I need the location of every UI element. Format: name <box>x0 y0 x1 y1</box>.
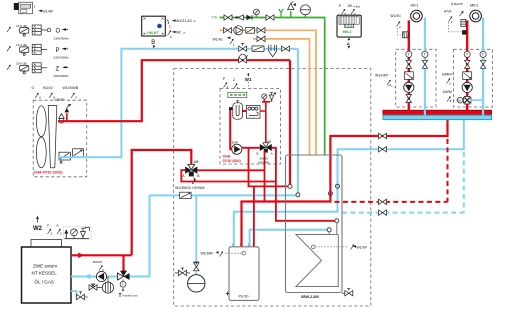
wire cyan main down to tank port <box>297 49 299 195</box>
wire 3way to riser cyan <box>129 195 150 276</box>
svg-text:O: O <box>56 29 61 35</box>
wire mixer bypass cyan <box>471 99 483 101</box>
MK1 pump A/MKP <box>462 82 472 92</box>
outlet funnel on cyan main <box>269 45 277 57</box>
svg-text:T: T <box>122 283 124 287</box>
svg-text:2: 2 <box>34 4 36 8</box>
fuse row O 16A <box>7 24 69 41</box>
svg-text:MM-2: MM-2 <box>343 30 352 34</box>
MK1 valve supply <box>465 60 470 68</box>
svg-text:W1/SAF: W1/SAF <box>201 252 214 256</box>
filter on cyan return <box>180 192 192 198</box>
heat pump outdoor unit CHA-07/10 ODU dashed box <box>33 100 86 177</box>
boiler ZWE extern NT KESSEL <box>22 247 72 303</box>
node cyan port SEW mid <box>336 184 340 188</box>
wire tank branch red <box>253 186 255 246</box>
svg-text:3: 3 <box>75 96 77 100</box>
big boundary dashed box <box>174 69 371 307</box>
fuse row Z 20A <box>7 62 69 79</box>
flow sensor A/VF <box>444 10 467 35</box>
IDU internal red pipes <box>230 109 233 140</box>
svg-text:3: 3 <box>237 86 239 90</box>
svg-text:W1: W1 <box>348 4 353 8</box>
svg-text:W1/Z1,A3: W1/Z1,A3 <box>176 19 192 23</box>
SEW drain valve <box>342 289 353 296</box>
svg-text:Z: Z <box>56 66 60 72</box>
wire valve bottom port red <box>264 151 266 202</box>
svg-text:P: P <box>47 224 49 228</box>
svg-text:3: 3 <box>169 24 171 28</box>
wire 3way B port red <box>197 169 264 171</box>
MM-2 module <box>337 4 361 49</box>
svg-text:3: 3 <box>39 96 41 100</box>
heating circuit HK1 <box>411 2 423 21</box>
sensor W1/SAF <box>201 251 246 256</box>
svg-text:HK1: HK1 <box>411 2 420 7</box>
svg-text:A/VF: A/VF <box>444 10 452 14</box>
wire HK1 return cyan <box>424 18 426 116</box>
dirt separator <box>89 277 114 294</box>
svg-text:A/MKP: A/MKP <box>442 73 454 77</box>
svg-text:ZWE extern: ZWE extern <box>33 264 58 269</box>
max thermostat A-MaxTh <box>451 2 466 27</box>
MK1 dashed box <box>454 49 493 107</box>
wire coil return cyan <box>250 230 329 247</box>
svg-text:W1/A1: W1/A1 <box>213 37 224 41</box>
HM-NT module <box>142 16 197 48</box>
IDU expansion vessel <box>233 101 243 120</box>
svg-text:B: B <box>57 224 59 228</box>
fuse row P 16A <box>7 43 69 60</box>
svg-text:HM-NT: HM-NT <box>147 31 159 35</box>
svg-text:MaxTh: MaxTh <box>454 2 464 6</box>
svg-text:400V/50Hz: 400V/50Hz <box>54 74 70 78</box>
svg-text:NT KESSEL: NT KESSEL <box>32 271 58 276</box>
svg-text:B/KKP: B/KKP <box>93 260 102 264</box>
outdoor sensor W1/AF device <box>14 2 53 14</box>
svg-text:3: 3 <box>462 11 464 15</box>
svg-text:W1/E1: W1/E1 <box>390 14 401 18</box>
sensor W1/SF <box>311 244 367 249</box>
wire boiler supply riser red <box>132 150 192 255</box>
wire branch to 3way valve red <box>122 255 124 272</box>
svg-text:07/10 (IDU): 07/10 (IDU) <box>223 159 241 163</box>
svg-text:W1X0/MB: W1X0/MB <box>63 86 79 90</box>
wire red main down to tank port <box>289 60 291 186</box>
manifold bar red <box>383 110 492 115</box>
svg-text:O: O <box>32 86 35 90</box>
svg-text:MK1: MK1 <box>470 2 479 7</box>
wire manifold return cyan <box>234 119 464 247</box>
svg-text:SEW-2-300: SEW-2-300 <box>301 295 319 299</box>
svg-text:CHA-: CHA- <box>223 154 233 158</box>
valve on red main <box>239 54 248 63</box>
svg-text:P: P <box>56 48 60 54</box>
svg-text:2.5BAR: 2.5BAR <box>54 98 65 102</box>
svg-text:230V/50Hz: 230V/50Hz <box>54 36 70 40</box>
MK1 thermometer return <box>480 51 486 57</box>
buffer tank PU-50 <box>226 242 259 300</box>
svg-text:3: 3 <box>60 232 62 236</box>
boiler connection labels W2 P B <box>33 216 62 236</box>
svg-text:B: B <box>256 152 258 156</box>
svg-text:AB: AB <box>267 139 271 143</box>
wire ODU supply red <box>58 60 290 121</box>
svg-text:2: 2 <box>170 35 172 39</box>
wire manifold supply to PU50 red <box>242 119 448 247</box>
svg-text:16 A (B): 16 A (B) <box>16 24 27 28</box>
svg-text:W1/AF: W1/AF <box>42 10 53 14</box>
svg-text:PU-50: PU-50 <box>239 295 249 299</box>
HK1 valve supply <box>406 60 411 68</box>
wire ODU return cyan <box>58 49 298 158</box>
SEW internal coil <box>296 223 338 287</box>
svg-text:16 A (B): 16 A (B) <box>16 43 27 47</box>
IDU gauge and safety <box>262 92 276 100</box>
svg-text:el.: el. <box>183 32 186 35</box>
ODU terminal labels O W1X0 W1X0/MB <box>32 86 79 100</box>
circulation return line orange <box>253 36 310 155</box>
valve on supply red <box>379 133 387 138</box>
svg-text:el.: el. <box>193 20 196 23</box>
3way valve W1/3WUV HZ/WW black <box>175 160 205 190</box>
node cyan port coil <box>327 228 331 232</box>
svg-text:3: 3 <box>51 232 53 236</box>
boiler top connector <box>31 240 62 248</box>
IDU pump ZHP <box>232 141 242 155</box>
sensor T kessel min <box>119 281 139 299</box>
node red port SEW mid <box>328 192 332 196</box>
boiler pump B/KKP <box>93 260 107 282</box>
valve on return cyan <box>379 147 387 152</box>
svg-text:3: 3 <box>449 82 451 86</box>
svg-text:W1: W1 <box>245 77 252 82</box>
wire expansion vessel cyan <box>195 195 197 274</box>
svg-text:HZ/WW: HZ/WW <box>258 160 269 164</box>
mixed circuit MK1 <box>470 2 482 21</box>
boiler instrument group thermometer gauge safety <box>64 226 92 239</box>
svg-text:W1X0: W1X0 <box>43 86 53 90</box>
svg-text:W2: W2 <box>33 226 43 232</box>
ODU blade column <box>48 106 57 168</box>
svg-text:2: 2 <box>399 25 401 29</box>
3way mixing valve boiler black <box>118 271 130 282</box>
IDU heat exchanger coil box <box>246 105 260 118</box>
IDU electrical connections P Z W1 <box>223 73 252 90</box>
vessel fill valve <box>175 268 191 276</box>
wire MK1 supply red <box>466 20 468 110</box>
MK1 mixer A/MM <box>443 90 471 104</box>
heat pump indoor unit CHA-07/10 IDU dashed box <box>220 89 281 165</box>
svg-text:B: B <box>151 40 155 46</box>
expansion vessel <box>188 262 205 292</box>
ODU safety valve and gauge <box>59 104 72 123</box>
warm water line orange with circulation pump <box>213 26 317 155</box>
MK1 filter <box>463 72 472 80</box>
wire HK1 supply red <box>408 20 410 110</box>
svg-text:W1/SF: W1/SF <box>356 245 367 249</box>
svg-text:M: M <box>458 99 461 103</box>
IDU 3way valve 3WUV HZ/WW black <box>256 139 273 155</box>
node red port coil <box>335 219 339 223</box>
filter on cyan main <box>252 46 264 52</box>
wire 3way A port loop red <box>181 170 276 181</box>
immersion heater W1/E1 <box>390 14 408 38</box>
wire valve A port red <box>272 148 337 221</box>
HK1 valve lower <box>406 95 411 103</box>
HK1 filter <box>404 72 413 80</box>
HK1 return valve <box>422 60 427 68</box>
HK1 thermometer return <box>422 51 428 57</box>
svg-text:3: 3 <box>344 12 346 16</box>
node red port SEW <box>288 184 292 188</box>
dashed alt return cyan <box>342 212 464 214</box>
HK1 pump W1/HKP <box>404 82 414 92</box>
cold water KW line green <box>212 1 325 155</box>
svg-text:T: T <box>119 293 122 299</box>
MK1 thermometer supply <box>464 51 470 57</box>
svg-text:230V/50Hz: 230V/50Hz <box>54 56 70 60</box>
svg-text:W1/HKP: W1/HKP <box>375 73 389 77</box>
valve on cyan main <box>239 44 247 52</box>
node cyan port SEW <box>296 193 300 197</box>
svg-text:Kessel min.: Kessel min. <box>123 294 139 298</box>
svg-text:A/MM: A/MM <box>443 90 452 94</box>
svg-text:CHA-07/10 (ODU): CHA-07/10 (ODU) <box>34 171 63 175</box>
DHW tank SEW-2-300 <box>286 155 343 299</box>
svg-text:e-Bus: e-Bus <box>354 6 361 9</box>
svg-text:ÖL / GAS: ÖL / GAS <box>35 279 55 285</box>
wire cyan main return <box>150 194 298 196</box>
wire boiler return cyan <box>71 276 118 278</box>
svg-text:W1/3WUV HZ/WW: W1/3WUV HZ/WW <box>175 186 205 190</box>
wire boiler supply red <box>71 254 132 256</box>
valve2 on cyan main <box>282 46 290 51</box>
svg-text:1: 1 <box>233 43 235 47</box>
wire MK1 return cyan <box>482 18 484 116</box>
ODU fan <box>36 106 46 168</box>
HK1 thermometer supply <box>406 51 412 57</box>
svg-text:20 A (B): 20 A (B) <box>16 62 27 66</box>
HK1 dashed box <box>396 49 436 107</box>
svg-text:2: 2 <box>354 12 356 16</box>
IDU display <box>228 92 247 97</box>
wire pump inlet red <box>230 140 232 149</box>
svg-text:2: 2 <box>451 20 453 24</box>
ODU heat exchanger symbols <box>59 149 83 164</box>
svg-text:AB: AB <box>194 160 199 164</box>
manifold bar cyan <box>383 115 492 119</box>
dashed alt supply red <box>335 201 448 203</box>
boiler drain cyan <box>71 291 88 297</box>
svg-text:KW: KW <box>212 16 218 20</box>
wire pump outlet to tank dot red <box>242 148 290 187</box>
MK1 return valve <box>480 60 485 68</box>
svg-text:W2: W2 <box>176 31 181 35</box>
